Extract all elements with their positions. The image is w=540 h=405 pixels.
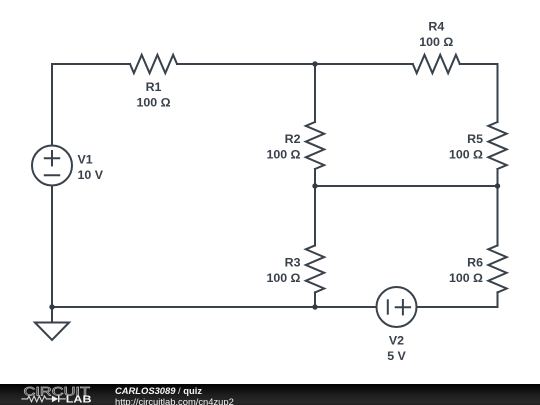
wire middle horizontal node B to right rail (315, 185, 498, 187)
svg-text:100 Ω: 100 Ω (449, 148, 483, 162)
ground (35, 307, 69, 340)
svg-text:100 Ω: 100 Ω (449, 271, 483, 285)
label R1 (136, 80, 170, 110)
resistor R1 (130, 55, 177, 73)
wire middle rail node A to R2 (314, 64, 316, 122)
label R6 (449, 255, 483, 285)
ground junction dot (49, 304, 54, 309)
voltage source V2 (377, 287, 417, 327)
wire R3 to bottom node (314, 292, 316, 307)
label R2 (266, 132, 300, 162)
node B junction dot (312, 183, 317, 188)
svg-text:R3: R3 (285, 255, 301, 269)
wire top-left horizontal from V1 rail to R1 (52, 64, 130, 146)
svg-text:R1: R1 (146, 80, 162, 94)
svg-text:R5: R5 (467, 132, 483, 146)
label R5 (449, 132, 483, 162)
svg-text:LAB: LAB (66, 394, 92, 405)
svg-text:R2: R2 (285, 132, 301, 146)
wire R6 to bottom right corner (417, 292, 498, 307)
svg-text:5 V: 5 V (387, 349, 406, 363)
label R3 (266, 255, 300, 285)
node A junction dot (312, 61, 317, 66)
wire bottom left from ground node to V2 (52, 306, 377, 308)
svg-text:100 Ω: 100 Ω (136, 96, 170, 110)
wire V1 rail bottom (51, 186, 53, 308)
voltage source V1 (32, 146, 72, 186)
resistor R5 (488, 122, 506, 169)
wire node A to R4 (315, 63, 413, 65)
wire R1 to node A (177, 63, 315, 65)
CircuitLab logo (0, 384, 110, 405)
label R4 (419, 20, 453, 50)
footer bar (0, 384, 540, 405)
svg-text:100 Ω: 100 Ω (419, 35, 453, 49)
resistor R6 (488, 245, 506, 292)
bottom middle junction dot (312, 304, 317, 309)
svg-text:10 V: 10 V (78, 168, 104, 182)
resistor R3 (306, 245, 324, 292)
svg-text:100 Ω: 100 Ω (266, 271, 300, 285)
logo resistor zigzag (21, 396, 52, 402)
label V2 (387, 334, 406, 364)
svg-text:V1: V1 (78, 153, 93, 167)
resistor R2 (306, 122, 324, 169)
logo diode (52, 396, 58, 403)
svg-text:R4: R4 (428, 20, 444, 34)
wire R2 to R3 through node B (314, 169, 316, 245)
wire right rail R5 to R6 (497, 169, 499, 245)
svg-text:V2: V2 (389, 334, 404, 348)
node B right junction dot (495, 183, 500, 188)
svg-text:R6: R6 (467, 255, 483, 269)
resistor R4 (413, 55, 460, 73)
footer credit text (115, 385, 234, 405)
svg-text:100 Ω: 100 Ω (266, 148, 300, 162)
wire R4 to right rail top corner (460, 64, 498, 122)
label V1 (78, 153, 104, 183)
